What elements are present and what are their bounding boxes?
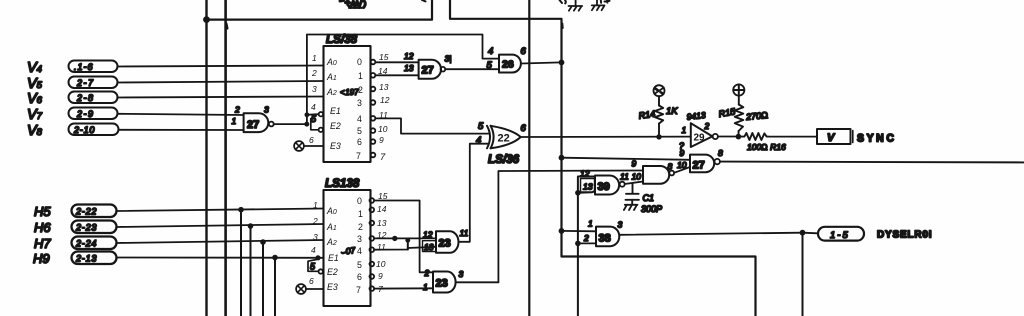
- svg-text:3: 3: [357, 234, 362, 244]
- svg-text:270Ω: 270Ω: [745, 110, 769, 122]
- chip2 port names left: [326, 206, 339, 292]
- svg-text:DYSELR0I: DYSELR0I: [877, 230, 932, 241]
- svg-text:H7: H7: [34, 236, 51, 251]
- svg-text:V5: V5: [27, 76, 43, 92]
- svg-text:13: 13: [377, 218, 387, 228]
- svg-text:1: 1: [313, 200, 318, 210]
- svg-text:22: 22: [498, 133, 510, 145]
- svg-text:4: 4: [311, 102, 316, 112]
- svg-text:E2: E2: [327, 267, 338, 277]
- output box V sync: [817, 129, 853, 144]
- svg-text:C1: C1: [643, 193, 655, 203]
- nand gate 27a (V7,V8): [244, 113, 274, 132]
- symbol power circle R14: [654, 85, 665, 96]
- svg-text:11: 11: [620, 172, 629, 182]
- svg-text:7: 7: [356, 151, 361, 161]
- svg-text:2-8: 2-8: [76, 93, 95, 103]
- bubble chip1 E2: [319, 128, 323, 132]
- svg-text:5: 5: [310, 262, 316, 272]
- node RYSEL junction: [800, 230, 806, 236]
- svg-text:27: 27: [247, 119, 259, 131]
- svg-text:2-24: 2-24: [75, 239, 97, 249]
- junction tick out4 to out3 wire: [407, 240, 409, 250]
- svg-text:5: 5: [311, 114, 317, 124]
- chip2 output pin numbers: [376, 191, 388, 294]
- nand gate 39: [595, 176, 625, 195]
- wire V8 to nand27a input 1: [119, 129, 244, 131]
- wire H6 to chip2 A1: [117, 224, 324, 227]
- svg-text:100Ω R16: 100Ω R16: [747, 142, 786, 152]
- svg-text:1: 1: [358, 209, 363, 219]
- svg-text:H9: H9: [33, 251, 50, 266]
- wire H9 to chip2 E1: [117, 257, 319, 259]
- svg-text:13: 13: [424, 242, 434, 252]
- svg-text:1: 1: [232, 116, 237, 126]
- wire chip2 out4 to gate23t input 13: [374, 247, 436, 250]
- svg-text:15: 15: [379, 52, 389, 62]
- wire chip1 top feedback: E1 drop, up and over to gate26 input 4: [307, 35, 499, 125]
- svg-text:23: 23: [436, 278, 448, 290]
- svg-text:7: 7: [356, 285, 361, 295]
- connector pill H7 2-24: [72, 237, 117, 250]
- svg-text:V: V: [827, 132, 836, 144]
- svg-text:3: 3: [312, 84, 317, 94]
- svg-text:9413: 9413: [686, 110, 706, 122]
- wire chip1 E2 jog box: [311, 119, 319, 130]
- connector pill 1-5: [818, 227, 864, 241]
- svg-text:A2: A2: [326, 237, 337, 247]
- chip2 output digits inside: [356, 196, 363, 295]
- svg-text:9: 9: [680, 148, 685, 158]
- svg-text:4: 4: [311, 245, 316, 255]
- svg-text:6: 6: [309, 276, 314, 286]
- svg-text:1: 1: [312, 53, 317, 63]
- svg-text:2: 2: [311, 68, 317, 78]
- svg-text:LS138: LS138: [325, 176, 360, 190]
- svg-text:2: 2: [583, 233, 589, 243]
- svg-text:2: 2: [234, 105, 240, 115]
- wire gate23b output right then up: [456, 281, 499, 283]
- svg-text:A0: A0: [326, 206, 337, 216]
- resistor R16 100ohm horizontal: [738, 133, 768, 140]
- node H7 drop: [260, 239, 266, 245]
- node top-left junction: [203, 16, 210, 23]
- node chip2 E1 entry: [315, 255, 320, 260]
- node gate38 input tap on x561 rail: [559, 228, 565, 234]
- label 13 partial: [560, 0, 566, 3]
- node H9 drop: [272, 255, 278, 261]
- svg-text:A1: A1: [326, 222, 337, 232]
- nand gate 27t: [419, 60, 446, 79]
- wire chip1 out4 to xor22 input 5: [375, 118, 488, 133]
- chip1 output pin numbers: [378, 52, 390, 163]
- svg-text:2: 2: [424, 268, 430, 278]
- svg-text:10: 10: [378, 124, 388, 134]
- svg-text:5: 5: [357, 126, 362, 136]
- svg-text:2-10: 2-10: [73, 125, 95, 135]
- svg-text:6: 6: [521, 123, 527, 134]
- connector pill V5 2-7: [69, 77, 118, 89]
- symbol circled-x at chip1 E3: [294, 141, 304, 151]
- wire nand39 output to middle nand input 10: [625, 182, 643, 185]
- connector pill V6 2-8: [69, 92, 118, 104]
- svg-text:H5: H5: [34, 204, 51, 219]
- wire V6 to chip1 A2: [118, 97, 324, 98]
- svg-text:13: 13: [583, 182, 593, 192]
- node nand27a output meets E1 drop: [304, 122, 309, 127]
- svg-text:6: 6: [309, 135, 314, 145]
- svg-text:3|: 3|: [445, 54, 452, 64]
- and gate 38: [596, 227, 619, 247]
- svg-text:E1: E1: [330, 106, 341, 116]
- svg-text:8: 8: [668, 162, 673, 172]
- connector pill H6 2-23: [72, 221, 117, 234]
- node H6 drop: [248, 223, 254, 229]
- node nand27b input tap on x561 rail: [559, 155, 565, 161]
- svg-text:2-9: 2-9: [76, 109, 95, 119]
- svg-text:LS/38: LS/38: [326, 32, 358, 46]
- wire V7 to nand27a input 2: [118, 114, 244, 115]
- svg-text:15: 15: [378, 191, 388, 201]
- svg-text:LS/36: LS/36: [488, 152, 520, 166]
- svg-text:27: 27: [693, 160, 705, 172]
- wire E3 chip2: [306, 288, 324, 290]
- svg-text:R14: R14: [638, 109, 656, 121]
- node R15 tap: [736, 134, 742, 140]
- symbol power circle plus R15: [733, 84, 744, 95]
- svg-text:2: 2: [704, 121, 710, 131]
- svg-text:9: 9: [378, 271, 383, 281]
- svg-text:1: 1: [682, 125, 687, 135]
- svg-text:39: 39: [598, 181, 610, 193]
- svg-text:.1-6: .1-6: [74, 62, 94, 72]
- svg-text:14: 14: [377, 204, 387, 214]
- svg-text:5: 5: [357, 260, 362, 270]
- svg-text:13: 13: [379, 82, 389, 92]
- wire x561 rail to gate38 input 1: [562, 230, 597, 232]
- svg-text:5: 5: [487, 60, 493, 71]
- nand gate 23t: [436, 231, 459, 253]
- svg-text:38: 38: [599, 233, 611, 245]
- wire nand27t output to and26 input 5: [445, 68, 499, 70]
- svg-text:E1: E1: [328, 253, 339, 263]
- svg-text:2: 2: [358, 222, 363, 232]
- xor gate 22: [487, 126, 521, 149]
- svg-text:2: 2: [312, 216, 318, 226]
- wire H5 to chip2 A0: [117, 209, 324, 212]
- symbol circled-x at chip2 E3: [296, 284, 306, 294]
- node E1 tap: [305, 112, 310, 117]
- svg-text:V8: V8: [27, 123, 43, 139]
- svg-text:2-22: 2-22: [75, 207, 97, 217]
- svg-text:3: 3: [313, 232, 318, 242]
- chip1 output digits inside: [356, 57, 363, 161]
- resistor R14 1K vertical: [655, 97, 663, 137]
- svg-text:4: 4: [357, 114, 362, 124]
- chip1 pin numbers left: [309, 53, 317, 145]
- wire nand27b output long to right edge: [720, 161, 1024, 164]
- node out3 dot: [392, 236, 397, 241]
- svg-text:V7: V7: [27, 107, 43, 123]
- wire middle nand output to nand27b input 10: [674, 167, 690, 173]
- wire xor22 output to inverter29 input: [521, 136, 691, 138]
- svg-text:E3: E3: [330, 141, 341, 151]
- node gate38 input2 tap on x578: [575, 241, 581, 247]
- svg-text:6: 6: [521, 46, 527, 57]
- wire chip2 out3 to gate23t input 12: [374, 237, 436, 239]
- nand gate 23b: [433, 272, 456, 293]
- connector pill H5 2-22: [72, 205, 117, 218]
- svg-text:V6: V6: [27, 91, 43, 107]
- wire V4 to chip1 A0: [118, 66, 324, 67]
- svg-text:1K: 1K: [666, 106, 678, 117]
- node R14 tap: [656, 134, 661, 139]
- svg-text:26: 26: [502, 59, 514, 71]
- wire RYSEL node to pill: [803, 232, 819, 235]
- svg-text:1-5: 1-5: [830, 230, 850, 241]
- svg-text:9: 9: [632, 159, 637, 169]
- wire gate23t output up to xor22 input 4: [459, 144, 489, 242]
- svg-text:3: 3: [264, 105, 269, 115]
- connector pill H9 2-13: [72, 252, 117, 265]
- svg-text:2-7: 2-7: [76, 78, 95, 88]
- wire H5 drop to bottom: [240, 210, 242, 316]
- wire H6 drop to bottom: [250, 226, 252, 316]
- svg-text:⌣07: ⌣07: [340, 245, 357, 257]
- wire and26 output to x561 rail: [521, 62, 561, 63]
- svg-text:9: 9: [379, 135, 384, 145]
- chip2 output bubbles: [370, 198, 375, 291]
- svg-text:11: 11: [460, 228, 469, 238]
- wire H9 drop to bottom: [274, 258, 276, 316]
- svg-text:29: 29: [694, 133, 706, 144]
- svg-text:SYNC: SYNC: [857, 133, 897, 145]
- svg-text:2-13: 2-13: [75, 254, 97, 264]
- svg-text:3: 3: [357, 98, 362, 108]
- svg-text:6: 6: [357, 272, 362, 282]
- tick on x561 below corner: [561, 24, 563, 29]
- resistor R15 270ohm vertical: [735, 96, 744, 137]
- wire long vertical bus B: [224, 0, 227, 316]
- svg-text:13: 13: [404, 63, 414, 73]
- node gate26 output on x561 rail: [559, 60, 565, 66]
- wire from bus A junction to top edge: [207, 0, 433, 20]
- capacitor C1 300P: [626, 184, 639, 205]
- svg-text:7: 7: [380, 152, 386, 163]
- connector pill V4 .1-6: [69, 61, 118, 73]
- svg-text:4: 4: [357, 246, 362, 256]
- svg-text:3: 3: [459, 269, 464, 279]
- svg-text:6: 6: [357, 137, 362, 147]
- wire E3 chip1: [304, 145, 324, 147]
- svg-text:E2: E2: [330, 121, 341, 131]
- wire x561 rail to nand27b input 9: [562, 158, 691, 160]
- svg-text:10: 10: [632, 172, 642, 182]
- bubble chip2 E2: [319, 269, 323, 273]
- wire RYSEL node down to bottom edge: [802, 233, 804, 316]
- wire V5 to chip1 A1: [118, 81, 324, 83]
- svg-text:V4: V4: [27, 60, 42, 76]
- IC U1 LS138 top chip body: [324, 46, 371, 162]
- svg-text:1: 1: [588, 219, 593, 229]
- ground symbol 13 top: [569, 0, 583, 11]
- wire long vertical bus C: [528, 0, 530, 316]
- tick on bus B: [226, 24, 227, 29]
- svg-text:A1: A1: [326, 72, 337, 82]
- svg-text:E3: E3: [327, 282, 338, 292]
- svg-text:27: 27: [422, 65, 434, 77]
- svg-text:A2: A2: [326, 87, 337, 97]
- scribble 16 ground partial top: [340, 1, 365, 8]
- wire chip1 out1 to nand27t: [375, 74, 418, 76]
- chip1 port names left: [326, 57, 341, 151]
- wire gate38 output to RYSEL node: [620, 233, 803, 235]
- pin label 13 gate23t boxed: [423, 241, 437, 252]
- ground symbol 14 top: [592, 0, 605, 10]
- svg-text:12: 12: [423, 230, 433, 240]
- svg-text:2-23: 2-23: [75, 223, 97, 233]
- wire x578 net: input12 corner down to bottom edge: [578, 177, 595, 316]
- svg-text:0: 0: [357, 196, 362, 206]
- nand gate middle (unnumbered): [643, 166, 674, 184]
- inverter gate 29: [691, 123, 718, 147]
- wire gate23b route up to middle nand input 9: [498, 171, 643, 283]
- wire chip2 E2 jog box: [308, 260, 318, 272]
- wire nand39 input 13: [578, 191, 595, 193]
- IC U2 LS138 bottom chip body: [324, 190, 371, 306]
- connector pill V7 2-9: [69, 108, 118, 120]
- ground below C1: [624, 205, 638, 210]
- chip1 output bubbles: [371, 60, 376, 158]
- svg-text:A0: A0: [326, 57, 337, 67]
- and gate 26: [499, 55, 521, 73]
- wire chip1 out0 to nand27t: [375, 61, 418, 63]
- svg-text:300P: 300P: [641, 204, 662, 214]
- bubble E1 chip1: [319, 112, 323, 116]
- wire inverter29 output to R15 node: [718, 136, 739, 138]
- nand gate 27b: [690, 155, 720, 173]
- svg-text:12: 12: [380, 95, 390, 105]
- wire nand27a output to chip1 E2 pin5: [274, 123, 308, 125]
- wire gate38 input 2: [578, 242, 596, 244]
- wire E1 stub with bubble: [307, 113, 319, 116]
- wire net from top edge down to x561 rail: [450, 0, 756, 316]
- wire long vertical bus A: [205, 0, 207, 316]
- wire chip2 out7 to gate23b input 1: [374, 287, 433, 289]
- node nand39 input 13 tap: [575, 190, 581, 196]
- svg-text:1: 1: [358, 71, 363, 81]
- connector pill V8 2-10: [69, 124, 119, 136]
- svg-text:2: 2: [358, 85, 363, 95]
- svg-text:12: 12: [404, 51, 414, 61]
- wire chip2 out0 to gate23b input 2: [374, 201, 433, 273]
- svg-text:1: 1: [423, 282, 428, 292]
- node H5 drop: [238, 207, 244, 213]
- svg-text:8: 8: [718, 148, 723, 158]
- svg-text:4: 4: [488, 46, 493, 57]
- wire chip2 E1 into chip: [318, 257, 324, 259]
- svg-text:3: 3: [618, 220, 623, 230]
- svg-text:<197: <197: [340, 88, 359, 97]
- label 14 partial: [601, 0, 610, 3]
- wire R16 to sync box: [768, 136, 817, 138]
- svg-text:5: 5: [478, 121, 484, 132]
- svg-text:0: 0: [357, 57, 362, 67]
- svg-text:23: 23: [439, 238, 451, 250]
- svg-text:H6: H6: [34, 220, 51, 235]
- chip2 pin numbers left: [309, 200, 318, 286]
- wire H7 drop to bottom: [262, 242, 264, 316]
- wire H7 to chip2 A2: [117, 240, 324, 243]
- tick top small: [422, 0, 426, 1]
- pin label 13 nand39 boxed: [581, 179, 595, 193]
- svg-text:10: 10: [376, 259, 386, 269]
